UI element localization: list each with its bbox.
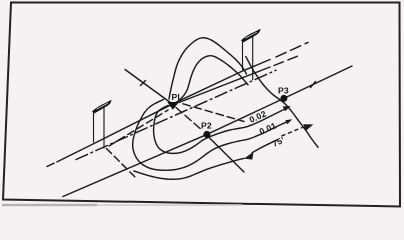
flag top short stick bbox=[242, 40, 244, 70]
flag left short stick bbox=[93, 112, 95, 143]
svg-text:P2: P2 bbox=[201, 121, 212, 131]
flag top main pole bbox=[252, 35, 254, 80]
wire back tangent into P1 bbox=[125, 70, 171, 104]
loop outer left-bottom branch bbox=[133, 100, 207, 171]
wire road far edge solid through P1 bbox=[47, 60, 270, 167]
flag left pennant bbox=[93, 101, 111, 149]
wire road far edge dashed continuation bbox=[276, 42, 308, 57]
tick on back tangent bbox=[141, 81, 146, 86]
flag left main pole bbox=[103, 107, 105, 149]
point P2 marker bbox=[203, 131, 210, 138]
small arrow on 0.01 end bbox=[285, 119, 292, 124]
inner continuation curve 0.02 bbox=[203, 107, 289, 140]
wire cross-section line through P2 solid bbox=[207, 136, 244, 173]
wire cross-section line P1 to P2 dashed bbox=[176, 108, 203, 132]
small arrow on 0.02 end bbox=[283, 106, 291, 111]
cross-section line at upper flag station merged with extension bbox=[246, 57, 318, 148]
wire dashed cross line at left flag base bbox=[107, 149, 136, 178]
arrowhead right of 75 dimension bbox=[303, 124, 313, 131]
dimension line dotted right part bbox=[282, 128, 302, 136]
flag top pennant bbox=[242, 30, 260, 80]
outer continuation curve 0.01 bbox=[207, 121, 290, 154]
wire dashed line left flag base to P1 bbox=[109, 110, 168, 146]
wire second tangent from P1 to upper right bbox=[179, 67, 270, 103]
scan smudge bottom-left bbox=[2, 204, 97, 206]
arrowhead left of 75 dimension bbox=[244, 152, 254, 160]
svg-text:PI: PI bbox=[172, 92, 181, 102]
point P1 marker solid triangle bbox=[167, 102, 179, 110]
bottom sweep curve to dimension arrow bbox=[134, 158, 244, 179]
wire dashed slope leader from P1 bbox=[183, 104, 244, 122]
loop inner top lobe from P1 bbox=[176, 56, 248, 103]
loop inner left-bottom branch bbox=[154, 106, 203, 154]
svg-text:P3: P3 bbox=[278, 86, 289, 96]
wire road near edge through P2 P3 bbox=[63, 66, 352, 197]
wire road centerline dash-dot bbox=[76, 70, 276, 159]
loop outer top lobe from P1 bbox=[169, 38, 247, 99]
point P3 marker bbox=[280, 95, 287, 102]
wire second tangent dashed continuation bbox=[274, 56, 298, 66]
dimension line solid left part bbox=[252, 140, 277, 153]
tick on near edge extension bbox=[311, 82, 316, 88]
